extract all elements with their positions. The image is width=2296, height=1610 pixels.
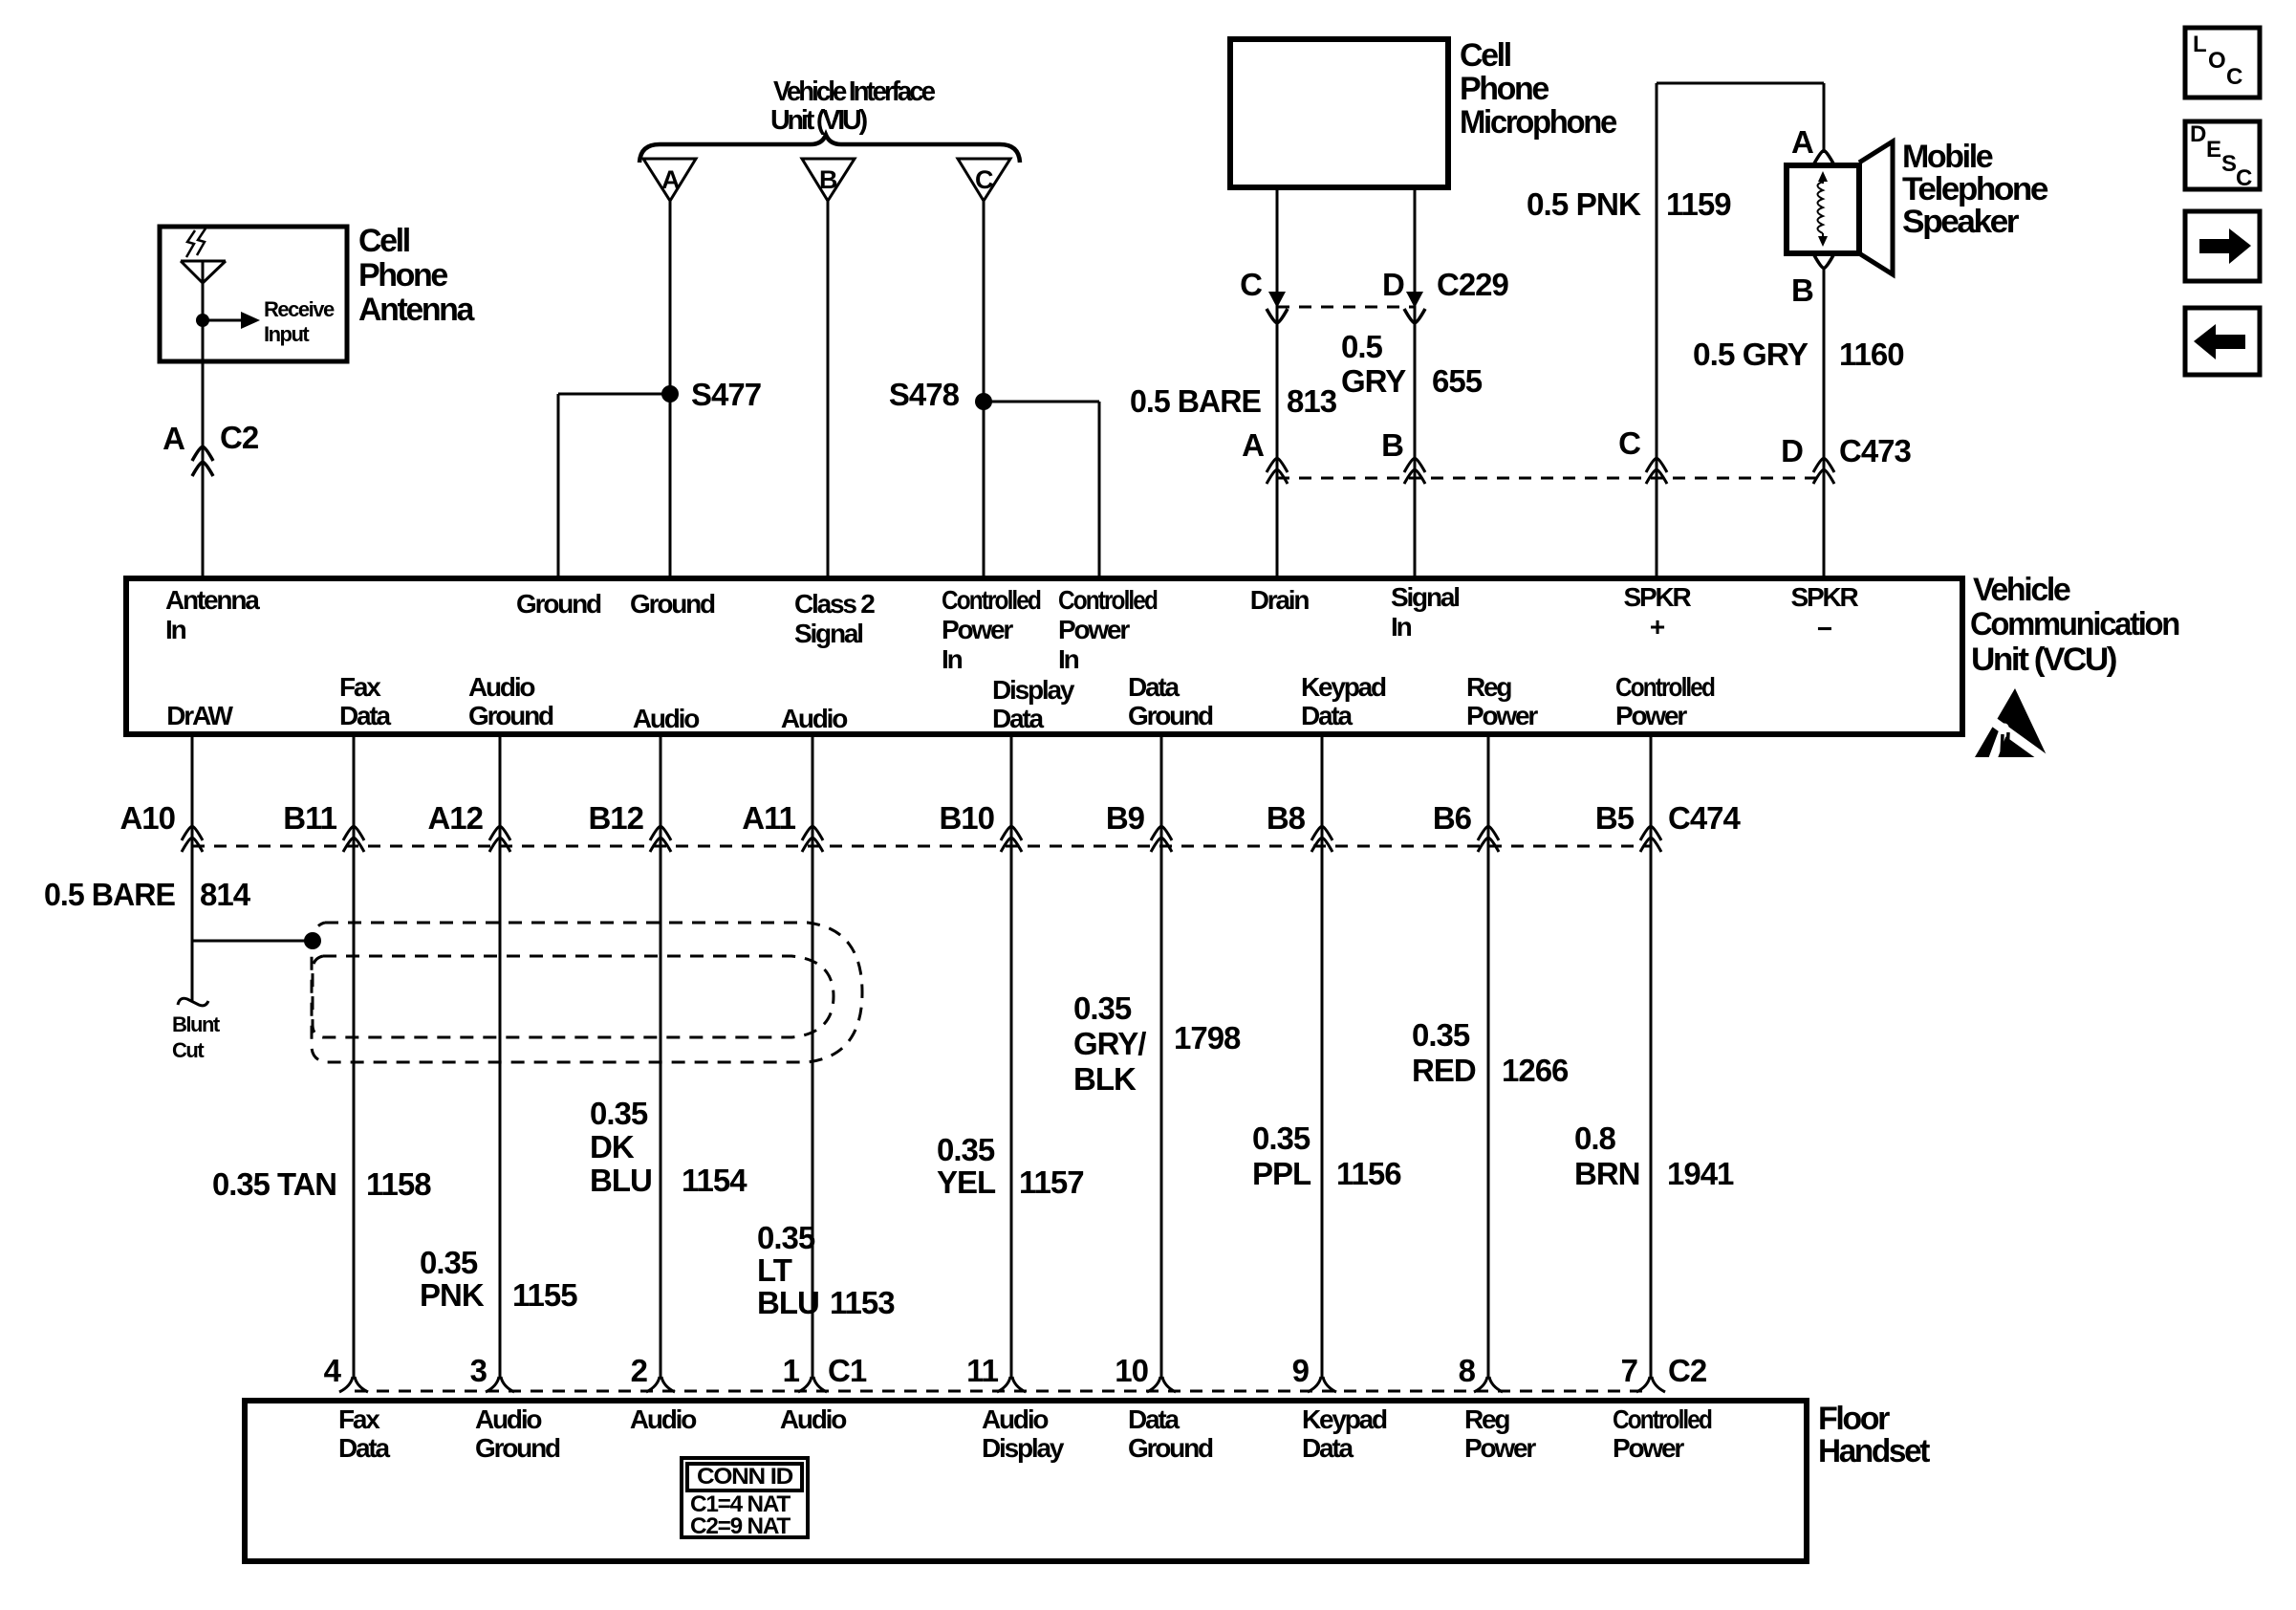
C474 chevrons A11 (802, 826, 823, 840)
svg-text:C: C (2226, 64, 2242, 90)
C473 dashed line (1277, 477, 1824, 480)
svg-text:Ground: Ground (475, 1433, 560, 1463)
svg-text:SPKR: SPKR (1791, 582, 1859, 612)
svg-text:Controlled: Controlled (1613, 1404, 1712, 1434)
svg-text:C229: C229 (1437, 267, 1509, 302)
svg-text:2: 2 (631, 1353, 648, 1388)
C474 chevrons B9 (1151, 826, 1172, 840)
svg-text:O: O (2208, 48, 2225, 74)
svg-text:BLK: BLK (1073, 1061, 1137, 1097)
wire B8 (1321, 734, 1324, 1379)
svg-text:Ground: Ground (468, 701, 553, 730)
svg-text:C2: C2 (220, 420, 259, 455)
antenna symbol (181, 260, 226, 263)
svg-text:Unit (VIU): Unit (VIU) (770, 105, 868, 136)
wire S478 branch to Controlled Power In (984, 401, 1099, 403)
svg-text:Power: Power (1058, 615, 1130, 644)
svg-text:C: C (1240, 267, 1262, 302)
C229 chevron C (1267, 309, 1288, 323)
svg-text:0.5: 0.5 (1341, 329, 1383, 364)
svg-text:D: D (2190, 121, 2206, 147)
svg-text:YEL: YEL (937, 1164, 996, 1200)
wire end pin 9 (1308, 1377, 1321, 1392)
svg-text:655: 655 (1432, 363, 1483, 399)
svg-text:B10: B10 (939, 800, 994, 836)
wire triangle C to S478 (983, 201, 986, 578)
svg-text:RED: RED (1412, 1053, 1476, 1088)
cell phone antenna box (160, 227, 347, 361)
svg-text:LT: LT (757, 1252, 792, 1288)
wire end pin 8 (1474, 1377, 1487, 1392)
svg-text:Keypad: Keypad (1302, 1404, 1387, 1434)
svg-text:B: B (1791, 272, 1813, 308)
svg-text:Telephone: Telephone (1902, 171, 2048, 207)
svg-text:Drain: Drain (1250, 585, 1310, 615)
wire B9 (1160, 734, 1163, 1379)
svg-text:1156: 1156 (1336, 1156, 1401, 1191)
svg-text:Power: Power (1615, 701, 1687, 730)
svg-text:C2=9 NAT: C2=9 NAT (690, 1513, 791, 1539)
speaker horn (1859, 141, 1893, 274)
svg-text:Phone: Phone (358, 257, 447, 294)
svg-text:PPL: PPL (1252, 1156, 1311, 1191)
svg-text:A10: A10 (119, 800, 175, 836)
C474 chevrons B10 (1001, 826, 1022, 840)
svg-text:Ground: Ground (630, 589, 715, 619)
svg-text:10: 10 (1115, 1353, 1148, 1388)
shield junction dot (304, 932, 321, 949)
svg-text:Cell: Cell (358, 223, 410, 259)
svg-text:Reg: Reg (1466, 672, 1511, 702)
svg-text:Receive: Receive (264, 297, 335, 321)
svg-text:B: B (1381, 427, 1403, 463)
svg-text:1798: 1798 (1174, 1020, 1241, 1055)
svg-text:In: In (1391, 612, 1412, 642)
svg-text:Power: Power (1464, 1433, 1536, 1463)
svg-text:Controlled: Controlled (942, 585, 1041, 615)
svg-text:1154: 1154 (682, 1163, 747, 1198)
C473 chevrons D (1813, 458, 1834, 472)
LOC icon box (2185, 28, 2260, 98)
splice S478 (975, 393, 992, 410)
svg-text:Audio: Audio (633, 704, 700, 733)
svg-text:1155: 1155 (512, 1277, 577, 1313)
svg-text:0.35: 0.35 (420, 1245, 478, 1280)
svg-text:Display: Display (982, 1433, 1065, 1463)
wire end pin 2 (646, 1377, 660, 1392)
C474 chevrons A10 (182, 826, 203, 840)
svg-text:GRY: GRY (1341, 363, 1406, 399)
svg-text:Audio: Audio (781, 704, 848, 733)
svg-text:Controlled: Controlled (1615, 672, 1715, 702)
svg-text:C: C (2236, 165, 2252, 191)
C473 chevrons C (1646, 458, 1667, 472)
svg-text:Audio: Audio (780, 1404, 847, 1434)
wire triangle A to S477 (669, 201, 672, 394)
wire end pin 3 (486, 1377, 499, 1392)
svg-text:Audio: Audio (468, 672, 535, 702)
svg-text:Handset: Handset (1818, 1433, 1930, 1469)
cable shield outer dashed (312, 923, 862, 1062)
antenna RF marks (186, 230, 195, 257)
svg-text:Fax: Fax (339, 672, 381, 702)
svg-text:4: 4 (324, 1353, 342, 1388)
wire end pin 4 (339, 1377, 353, 1392)
wire end pin 7 (1636, 1377, 1650, 1392)
svg-text:Reg: Reg (1464, 1404, 1509, 1434)
svg-text:1266: 1266 (1502, 1053, 1569, 1088)
wire B11 (353, 734, 356, 1379)
svg-text:0.35: 0.35 (937, 1132, 995, 1167)
wire B5 (1650, 734, 1653, 1379)
svg-text:814: 814 (200, 877, 251, 912)
C473 chevrons B (1404, 458, 1425, 472)
wire A11 (812, 734, 814, 1379)
svg-text:Communication: Communication (1970, 606, 2179, 642)
svg-text:Floor: Floor (1818, 1401, 1890, 1437)
svg-text:B6: B6 (1433, 800, 1472, 836)
svg-text:+: + (1650, 612, 1665, 642)
svg-text:A11: A11 (742, 800, 795, 836)
svg-text:8: 8 (1459, 1353, 1476, 1388)
svg-text:Controlled: Controlled (1058, 585, 1158, 615)
svg-text:Fax: Fax (338, 1404, 380, 1434)
svg-text:B12: B12 (588, 800, 643, 836)
svg-text:0.35: 0.35 (590, 1096, 648, 1131)
svg-text:CONN ID: CONN ID (697, 1464, 793, 1490)
svg-text:0.35 TAN: 0.35 TAN (212, 1166, 336, 1202)
svg-text:3: 3 (470, 1353, 487, 1388)
wire A10 (191, 734, 194, 1002)
svg-text:D: D (1781, 433, 1803, 468)
svg-text:E: E (2206, 137, 2221, 163)
C229 chevron D (1404, 309, 1425, 323)
svg-text:Cell: Cell (1460, 37, 1511, 74)
svg-text:813: 813 (1287, 383, 1337, 419)
mobile telephone speaker box (1787, 165, 1859, 253)
C473 chevrons A (1267, 458, 1288, 472)
connector C2 chevrons (192, 446, 213, 461)
svg-text:Audio: Audio (982, 1404, 1049, 1434)
svg-text:A: A (661, 165, 680, 194)
connector C474 dashed line (192, 845, 1651, 848)
wire S477 down to Ground (669, 394, 672, 578)
svg-text:B11: B11 (283, 800, 336, 836)
cell phone microphone box (1230, 39, 1448, 187)
svg-text:In: In (1058, 644, 1079, 674)
wire mic drain C (1276, 187, 1279, 578)
svg-text:S477: S477 (691, 377, 761, 412)
C474 chevrons B6 (1478, 826, 1499, 840)
svg-text:Data: Data (1301, 701, 1354, 730)
svg-text:0.35: 0.35 (757, 1220, 815, 1255)
triangle connector A (643, 159, 696, 201)
svg-text:B9: B9 (1106, 800, 1145, 836)
svg-text:0.5 PNK: 0.5 PNK (1527, 186, 1641, 222)
svg-text:A: A (162, 421, 184, 456)
svg-text:BLU: BLU (590, 1163, 652, 1198)
svg-text:DK: DK (590, 1129, 635, 1164)
svg-text:Vehicle: Vehicle (1973, 572, 2070, 608)
svg-text:1158: 1158 (366, 1166, 431, 1202)
svg-text:9: 9 (1292, 1353, 1310, 1388)
svg-text:C473: C473 (1839, 433, 1912, 468)
CONN ID table (682, 1458, 808, 1537)
floor handset connector dashed line (355, 1390, 1651, 1393)
speaker terminal B chevron (1814, 255, 1833, 269)
receive input arrow (203, 319, 241, 322)
svg-text:BLU: BLU (757, 1285, 819, 1320)
svg-text:Data: Data (1128, 672, 1180, 702)
svg-text:0.5 GRY: 0.5 GRY (1693, 337, 1809, 372)
svg-text:Blunt: Blunt (172, 1012, 221, 1036)
svg-text:0.35: 0.35 (1252, 1120, 1310, 1156)
svg-text:A: A (1791, 124, 1813, 160)
svg-text:Input: Input (264, 322, 310, 346)
svg-text:Ground: Ground (1128, 1433, 1213, 1463)
svg-text:In: In (942, 644, 963, 674)
receive input tap dot (196, 314, 209, 327)
C474 chevrons B12 (650, 826, 671, 840)
svg-text:Mobile: Mobile (1902, 139, 1993, 175)
C474 chevrons B11 (343, 826, 364, 840)
svg-text:C2: C2 (1668, 1353, 1707, 1388)
svg-text:0.5 BARE: 0.5 BARE (44, 877, 175, 912)
wire B12 (660, 734, 662, 1379)
svg-text:DrAW: DrAW (166, 701, 233, 730)
svg-text:SPKR: SPKR (1624, 582, 1692, 612)
svg-text:11: 11 (966, 1353, 999, 1388)
triangle connector C (958, 159, 1010, 201)
svg-text:B5: B5 (1595, 800, 1635, 836)
C474 chevrons A12 (489, 826, 510, 840)
svg-text:1160: 1160 (1839, 337, 1904, 372)
svg-text:Unit (VCU): Unit (VCU) (1971, 642, 2116, 678)
svg-text:Ground: Ground (1128, 701, 1213, 730)
svg-text:Data: Data (992, 704, 1045, 733)
svg-text:A12: A12 (427, 800, 483, 836)
triangle connector B (802, 159, 855, 201)
C474 chevrons B5 (1640, 826, 1661, 840)
svg-text:Keypad: Keypad (1301, 672, 1386, 702)
vehicle communication unit (VCU) box (126, 578, 1962, 734)
svg-text:Class 2: Class 2 (794, 589, 875, 619)
speaker terminal A chevron (1814, 151, 1833, 164)
floor handset box (245, 1401, 1807, 1561)
svg-text:C474: C474 (1668, 800, 1742, 836)
wire antenna to VCU (202, 361, 205, 578)
svg-text:Data: Data (1302, 1433, 1354, 1463)
ESD sensitive symbol (1975, 688, 2047, 757)
cable shield inner dashed (313, 956, 834, 1037)
svg-text:Signal: Signal (794, 619, 862, 648)
svg-text:B8: B8 (1267, 800, 1306, 836)
wire A12 (499, 734, 502, 1379)
DESC icon box (2185, 121, 2260, 189)
svg-text:0.35: 0.35 (1412, 1017, 1470, 1053)
svg-text:C: C (975, 165, 993, 194)
svg-text:1157: 1157 (1019, 1164, 1084, 1200)
wire A10 branch to shield (192, 940, 313, 943)
C229 arrows down (1268, 292, 1286, 308)
svg-text:A: A (1242, 427, 1264, 463)
svg-text:Vehicle Interface: Vehicle Interface (773, 76, 936, 107)
svg-text:0.8: 0.8 (1574, 1120, 1616, 1156)
svg-text:S: S (2221, 151, 2237, 177)
svg-text:1: 1 (783, 1353, 800, 1388)
svg-text:0.35: 0.35 (1073, 990, 1132, 1026)
back arrow icon box (2185, 308, 2260, 375)
wire S477 branch to Ground (558, 393, 670, 396)
svg-text:Power: Power (1613, 1433, 1684, 1463)
svg-text:Audio: Audio (475, 1404, 542, 1434)
C229 dashed line (1277, 306, 1415, 309)
wire end pin 1 (798, 1377, 812, 1392)
svg-text:Display: Display (992, 675, 1075, 705)
svg-text:Data: Data (1128, 1404, 1180, 1434)
svg-text:Power: Power (1466, 701, 1538, 730)
svg-text:Antenna: Antenna (165, 585, 260, 615)
svg-text:S478: S478 (889, 377, 960, 412)
svg-text:−: − (1817, 614, 1832, 643)
svg-text:B: B (819, 165, 837, 194)
svg-text:7: 7 (1621, 1353, 1637, 1388)
svg-text:Antenna: Antenna (358, 292, 475, 328)
svg-text:Speaker: Speaker (1902, 204, 2019, 240)
svg-text:D: D (1382, 267, 1404, 302)
C474 chevrons B8 (1311, 826, 1332, 840)
wire end pin 10 (1147, 1377, 1160, 1392)
wire SPKR- 1160 (1823, 268, 1826, 578)
svg-text:Data: Data (338, 1433, 391, 1463)
svg-text:1159: 1159 (1666, 186, 1731, 222)
svg-text:In: In (165, 615, 186, 644)
svg-text:Data: Data (339, 701, 392, 730)
forward arrow icon box (2185, 211, 2260, 281)
speaker coil (1822, 175, 1824, 184)
svg-text:C1: C1 (828, 1353, 867, 1388)
svg-text:1941: 1941 (1667, 1156, 1734, 1191)
wire end pin 11 (997, 1377, 1010, 1392)
svg-text:1153: 1153 (830, 1285, 895, 1320)
svg-text:Phone: Phone (1460, 71, 1549, 107)
wire B6 (1487, 734, 1490, 1379)
svg-text:Microphone: Microphone (1460, 104, 1616, 141)
svg-text:C: C (1618, 425, 1640, 461)
svg-text:BRN: BRN (1574, 1156, 1640, 1191)
svg-text:Ground: Ground (516, 589, 601, 619)
blunt cut hook (178, 998, 208, 1006)
svg-text:PNK: PNK (420, 1277, 485, 1313)
splice S477 (661, 385, 679, 402)
wire triangle B to VCU Class 2 Signal (827, 201, 830, 578)
VIU brace (639, 135, 1020, 163)
wire B10 (1010, 734, 1013, 1379)
svg-text:Power: Power (942, 615, 1013, 644)
wire SPKR+ 1159 (1656, 83, 1658, 578)
svg-text:Signal: Signal (1391, 582, 1459, 612)
wire mic signal D (1414, 187, 1417, 578)
svg-text:L: L (2193, 32, 2206, 57)
svg-text:Audio: Audio (630, 1404, 697, 1434)
svg-text:GRY/: GRY/ (1073, 1026, 1146, 1061)
svg-text:Cut: Cut (172, 1038, 205, 1062)
svg-text:0.5 BARE: 0.5 BARE (1130, 383, 1261, 419)
